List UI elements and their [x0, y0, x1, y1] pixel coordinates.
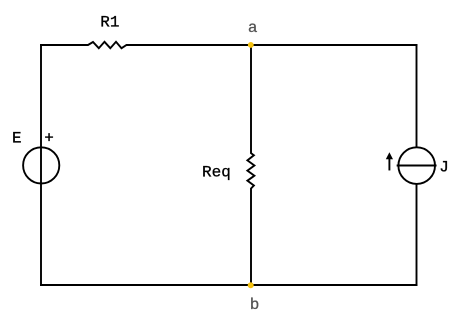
svg-text:R1: R1 [100, 14, 119, 32]
svg-text:a: a [248, 19, 258, 37]
svg-text:J: J [439, 158, 449, 176]
svg-text:E: E [12, 130, 22, 148]
svg-text:+: + [44, 130, 54, 148]
svg-text:Req: Req [202, 163, 231, 181]
svg-text:b: b [250, 296, 260, 314]
